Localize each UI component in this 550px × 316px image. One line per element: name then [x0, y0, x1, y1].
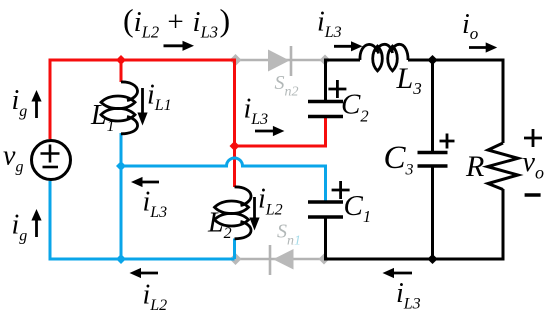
- wire: top horizontal red: [49, 59, 235, 62]
- capacitor C3 bottom plate: [418, 164, 448, 168]
- node: junction diamond black at bottom (C3 tap): [427, 254, 437, 264]
- svg-text:C3: C3: [384, 140, 414, 179]
- wire: middle column vertical red top->mid: [233, 59, 236, 147]
- inductor L1 coil: [101, 82, 138, 134]
- svg-text:iL3: iL3: [244, 94, 269, 128]
- voltage source plus sign: [41, 145, 60, 163]
- svg-text:L3: L3: [396, 62, 422, 98]
- label: plus C1: [332, 181, 350, 199]
- diode Sn1 gray branch wire: [235, 258, 326, 261]
- inductor L2 coil: [215, 187, 252, 239]
- inductor L3 coil: [360, 44, 408, 71]
- capacitor C1 bottom plate: [308, 215, 343, 219]
- svg-text:Sn2: Sn2: [275, 72, 299, 99]
- svg-text:vo: vo: [523, 147, 544, 183]
- label: minus R: [525, 193, 541, 196]
- wire: cyan middle horizontal with hop over red: [121, 158, 326, 166]
- label: plus C2: [328, 80, 346, 98]
- wire: cyan vertical under L1: [120, 133, 123, 259]
- svg-text:iL3: iL3: [317, 7, 342, 41]
- label: plus R: [524, 129, 542, 147]
- wire: left branch vertical red (source top): [49, 60, 52, 139]
- svg-text:vg: vg: [3, 141, 23, 176]
- wire: red vertical C2 bottom: [324, 115, 327, 148]
- arrow: io right arrow: [469, 42, 497, 52]
- node: junction diamond red at middle line: [230, 141, 240, 151]
- svg-text:iL3: iL3: [396, 278, 421, 312]
- svg-text:iL3: iL3: [143, 187, 168, 221]
- svg-text:(iL2 + iL3): (iL2 + iL3): [123, 2, 230, 42]
- node: gray diamond left end Sn1: [230, 253, 242, 265]
- wire: middle red horizontal to C2: [235, 145, 326, 148]
- wire: black below C1: [324, 217, 433, 261]
- svg-text:R: R: [465, 150, 484, 183]
- arrow: iL3 near C2 right arrow: [255, 126, 284, 136]
- arrow: ig bottom up arrow: [31, 209, 41, 237]
- voltage source Vg circle: [32, 141, 71, 180]
- wire: black below R to bottom right corner: [431, 189, 505, 261]
- arrow: iL3 mid-left left arrow: [131, 177, 159, 187]
- node: gray diamond right end Sn1: [319, 254, 330, 265]
- node: junction diamond cyan at bottom line: [116, 254, 126, 264]
- resistor R zigzag: [488, 143, 519, 190]
- svg-text:L1: L1: [90, 100, 115, 135]
- wire: black vertical to C3 top: [431, 60, 434, 152]
- node: junction diamond cyan at middle line: [116, 161, 126, 171]
- svg-text:iL2: iL2: [258, 184, 283, 219]
- capacitor C3 top plate: [418, 151, 448, 155]
- diode Sn1 triangle: [273, 249, 294, 270]
- node: junction diamond black at top (C3 tap): [427, 55, 437, 65]
- wire: cyan stub under L2: [233, 239, 236, 260]
- arrow: iL3 bottom right left arrow: [383, 268, 413, 278]
- arrow: iL1 down arrow: [137, 88, 147, 126]
- voltage source minus sign: [43, 166, 59, 169]
- wire: cyan vertical to C1 top: [324, 165, 327, 203]
- wire: black corner top of C2: [324, 59, 360, 102]
- node: gray diamond right end Sn2: [320, 55, 331, 66]
- arrow: iL3 top right arrow: [334, 41, 363, 51]
- capacitor C2 top plate: [308, 100, 343, 104]
- arrow: ig top up arrow: [31, 90, 41, 118]
- svg-text:iL2: iL2: [143, 280, 168, 314]
- svg-text:io: io: [462, 9, 478, 43]
- capacitor C2 bottom plate: [308, 115, 343, 119]
- diode Sn2 gray branch wire: [235, 59, 326, 62]
- diode Sn2 triangle: [268, 50, 290, 72]
- svg-text:Sn1: Sn1: [277, 221, 301, 249]
- wire: red stub into L2: [233, 146, 236, 187]
- capacitor C1 top plate: [308, 200, 343, 204]
- arrow: iL2 bottom left arrow: [130, 268, 159, 278]
- svg-text:ig: ig: [12, 85, 28, 120]
- svg-text:C2: C2: [341, 89, 369, 126]
- wire: black L3 to right corner: [408, 60, 503, 143]
- wire: red stub above L1: [120, 60, 123, 82]
- wire: cyan left vertical below source: [49, 181, 52, 259]
- svg-text:iL1: iL1: [147, 80, 172, 114]
- wire: cyan bottom horizontal: [49, 258, 235, 261]
- node: junction diamond red at top of L1: [116, 55, 126, 65]
- label: plus C3: [440, 134, 455, 149]
- svg-text:C1: C1: [344, 190, 372, 226]
- diode Sn1 cathode bar: [269, 245, 272, 275]
- arrow: iL2 down arrow at L2: [249, 197, 259, 231]
- wire: black vertical below C3: [431, 166, 434, 259]
- svg-text:ig: ig: [12, 210, 28, 245]
- node: gray diamond left end Sn2: [230, 54, 242, 66]
- arrow: (iL2+iL3) right arrow: [164, 41, 195, 51]
- diode Sn2 cathode bar: [290, 46, 293, 76]
